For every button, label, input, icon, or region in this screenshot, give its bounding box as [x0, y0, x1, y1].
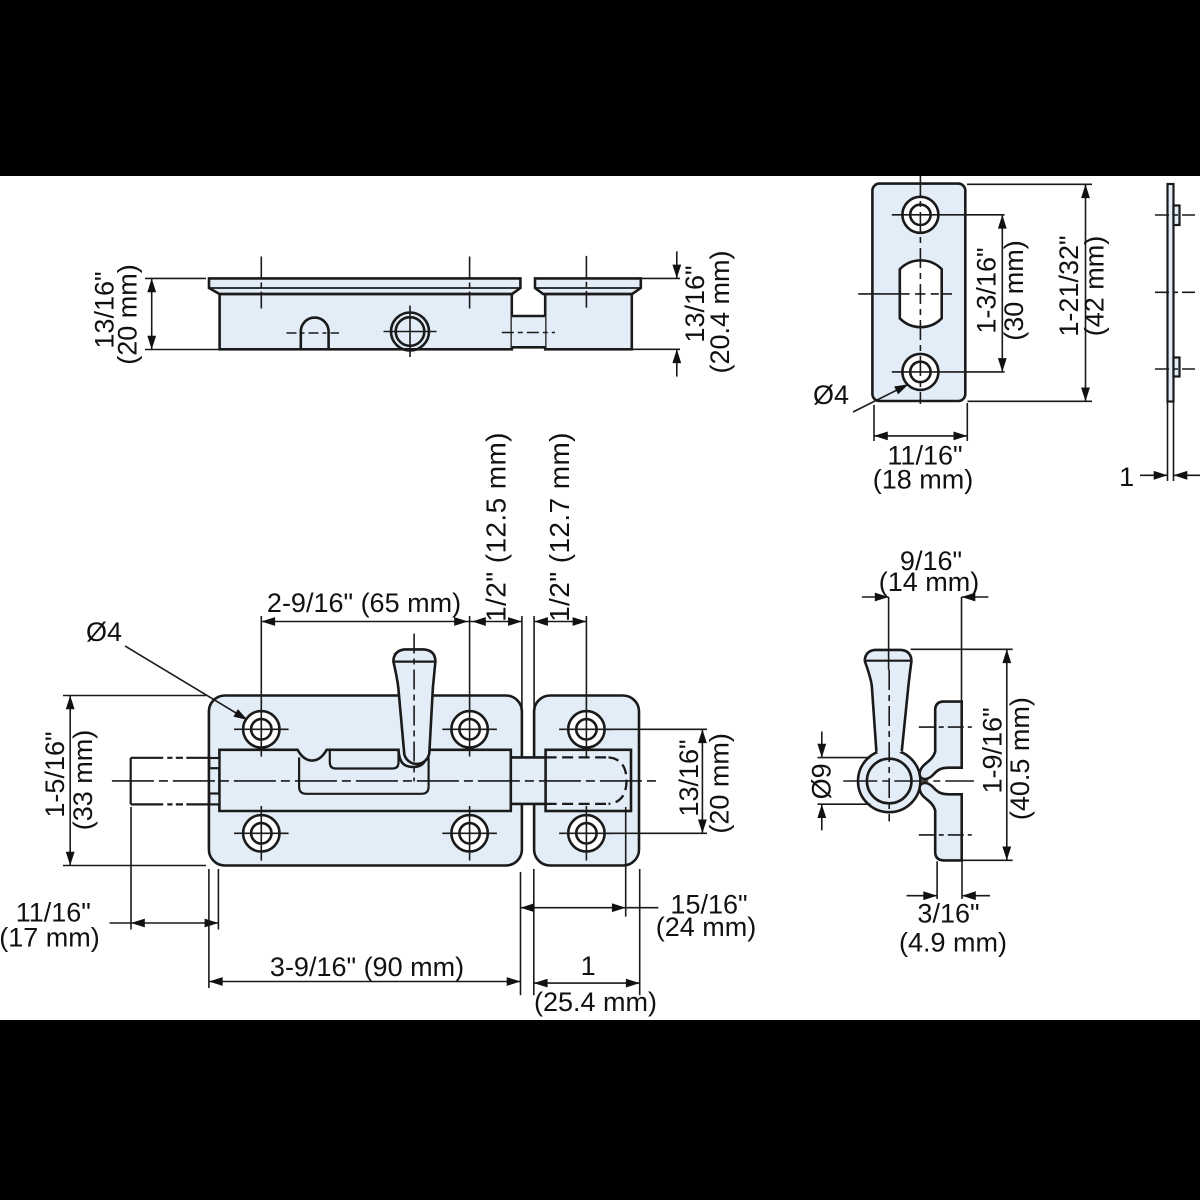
top view: keeper hole axis center line	[585, 256, 587, 308]
dimension 9/16in 14mm	[862, 597, 989, 702]
svg-text:1: 1	[1119, 462, 1134, 492]
edge view hole center line (top)	[1155, 214, 1195, 216]
dimension 1 (thickness)	[1140, 474, 1168, 476]
rod cup outer circle	[858, 750, 920, 812]
slide window cutout	[299, 757, 429, 794]
dimension 3/16in 4.9mm	[907, 860, 991, 899]
keeper strap outline	[546, 750, 631, 811]
edge view slot center line (middle)	[1155, 291, 1195, 293]
top view: flange countersink line	[209, 287, 520, 289]
dimension 1in 25.4mm	[534, 869, 640, 995]
knob (front view)	[393, 649, 435, 764]
screw hole A1 (main plate top-left)	[243, 711, 279, 747]
svg-text:(17 mm): (17 mm)	[0, 923, 100, 953]
top view: keeper flange countersink line	[535, 287, 641, 289]
top view: knob circle center ticks	[384, 306, 437, 358]
top view: detent dome	[301, 318, 329, 350]
strike plate top hole center line / 30mm extension	[892, 214, 1005, 216]
rod guide lip (bottom)	[209, 794, 219, 805]
svg-text:1/2" (12.7 mm): 1/2" (12.7 mm)	[544, 432, 575, 622]
bolt rod left portion bottom edge (phantom)	[131, 803, 210, 805]
svg-text:1/2" (12.5 mm): 1/2" (12.5 mm)	[480, 432, 511, 622]
knob (end view) fill	[865, 650, 912, 757]
screw hole B2 (keeper bottom)	[568, 815, 604, 851]
dimension 11/16in 18mm (strike plate width)	[874, 403, 967, 441]
knob cap line	[393, 660, 435, 662]
strike plate body	[872, 184, 965, 401]
slide spring plate	[330, 750, 399, 769]
svg-text:(40.5 mm): (40.5 mm)	[1005, 697, 1035, 820]
bolt rod left end	[130, 758, 132, 805]
upper hook / plate bar (end view)	[920, 702, 962, 779]
svg-text:1: 1	[581, 951, 596, 981]
rod cross-section circle (dia 9)	[867, 759, 912, 804]
svg-text:(4.9 mm): (4.9 mm)	[899, 927, 1007, 957]
top view: hole axis center line (right hole)	[469, 257, 471, 309]
strike plate slot center line	[858, 293, 952, 295]
svg-text:Ø9: Ø9	[806, 763, 836, 799]
svg-text:(25.4 mm): (25.4 mm)	[534, 987, 657, 1017]
top view: rod center line in gap	[502, 332, 555, 334]
svg-text:(14 mm): (14 mm)	[879, 567, 980, 597]
dimension 1-21/32in 42mm	[967, 184, 1092, 401]
top letterbox bar	[0, 0, 1200, 176]
main horizontal center line	[112, 780, 656, 782]
edge view hole center line (bottom)	[1155, 368, 1195, 370]
lower hook / plate bar (end view)	[920, 783, 962, 860]
dimension 1/2in 12.7mm	[534, 616, 586, 717]
bolt rod left portion top edge (phantom)	[131, 757, 210, 759]
svg-text:Ø4: Ø4	[813, 380, 849, 410]
svg-text:(42 mm): (42 mm)	[1080, 236, 1110, 337]
top view: bolt rod crossing gap	[512, 316, 545, 348]
top view: slide housing body	[220, 294, 512, 349]
keeper hole axis center line (upper, end view)	[919, 726, 972, 728]
dimension 1-5/16in 33mm	[63, 696, 206, 866]
svg-text:(20.4 mm): (20.4 mm)	[705, 250, 735, 373]
knob center line	[413, 634, 415, 782]
svg-text:13/16": 13/16"	[674, 739, 704, 816]
svg-text:1-3/16": 1-3/16"	[972, 247, 1002, 333]
top view: keeper flange (edge profile)	[535, 278, 641, 294]
staked pin tab (top)	[1174, 206, 1180, 226]
strike plate slot	[900, 260, 942, 327]
hidden bolt inside keeper (dashed)	[546, 756, 609, 758]
main plate	[209, 696, 522, 866]
svg-text:Ø4: Ø4	[86, 617, 122, 647]
top view: detent dome center line	[287, 332, 340, 334]
screw hole A3 (main plate bottom-left)	[243, 815, 279, 851]
screw hole B1 (keeper top)	[568, 711, 604, 747]
dimension 3-9/16in 90mm	[209, 869, 521, 995]
knob taper sides (end view)	[865, 661, 877, 752]
dimension dia 9	[818, 732, 871, 831]
end view horizontal center line	[843, 780, 974, 782]
extension lines for thickness dimension	[1167, 402, 1169, 481]
svg-text:(33 mm): (33 mm)	[68, 730, 98, 831]
strike plate top screw hole	[902, 197, 938, 233]
svg-text:(24 mm): (24 mm)	[656, 912, 757, 942]
dimension 1-3/16in 30mm	[1001, 215, 1003, 372]
dimension 13/16in 20mm (keeper holes)	[605, 729, 707, 833]
svg-text:1-5/16": 1-5/16"	[40, 731, 70, 817]
keeper hole axis center line (lower, end view)	[919, 834, 972, 836]
bottom letterbox bar	[0, 1020, 1200, 1200]
top view: keeper strap body	[545, 294, 632, 349]
dimension 2-9/16in 65mm	[261, 616, 469, 703]
dimension 13/16in 20mm (left, top view)	[145, 278, 222, 349]
dimension 11/16in 17mm	[110, 807, 219, 930]
strike plate bottom screw hole	[902, 354, 938, 390]
top view: main mounting-plate flange (edge profile)	[209, 278, 520, 294]
staked pin tab (bottom)	[1174, 358, 1180, 377]
svg-text:(18 mm): (18 mm)	[873, 465, 974, 495]
svg-text:3-9/16" (90 mm): 3-9/16" (90 mm)	[270, 952, 464, 982]
dimension 15/16in 24mm	[521, 807, 659, 917]
screw hole A2 (main plate top-right)	[451, 711, 487, 747]
top view: knob stem circle	[396, 317, 425, 346]
screw hole A4 (main plate bottom-right)	[451, 815, 487, 851]
svg-text:(20 mm): (20 mm)	[705, 733, 735, 834]
svg-text:(20 mm): (20 mm)	[112, 264, 142, 365]
dimension 13/16in 20.4mm (right, top view)	[632, 251, 680, 376]
knob cap line (end view)	[865, 660, 912, 662]
knob cap outline (end view)	[865, 650, 912, 661]
svg-text:3/16": 3/16"	[917, 899, 979, 929]
rod guide lip (top)	[209, 758, 219, 768]
slide housing outline with detent scallop and knob cradle	[219, 750, 510, 811]
svg-text:1-9/16": 1-9/16"	[978, 707, 1008, 793]
svg-text:2-9/16" (65 mm): 2-9/16" (65 mm)	[267, 588, 461, 618]
top view: knob outer circle	[391, 313, 429, 351]
svg-text:(30 mm): (30 mm)	[999, 240, 1029, 341]
strike plate vertical center line	[919, 176, 921, 404]
end view vertical center line	[888, 670, 890, 821]
bolt rod across gap (fill)	[511, 757, 546, 804]
dimension 1-9/16in 40.5mm	[911, 649, 1013, 860]
strike plate bottom hole center line / 30mm extension	[892, 371, 1005, 373]
keeper plate	[534, 696, 639, 866]
plate edge view strip	[1168, 184, 1174, 402]
top view: hole axis center line (left hole)	[260, 257, 262, 309]
dimension 1/2in 12.5mm	[470, 616, 522, 717]
